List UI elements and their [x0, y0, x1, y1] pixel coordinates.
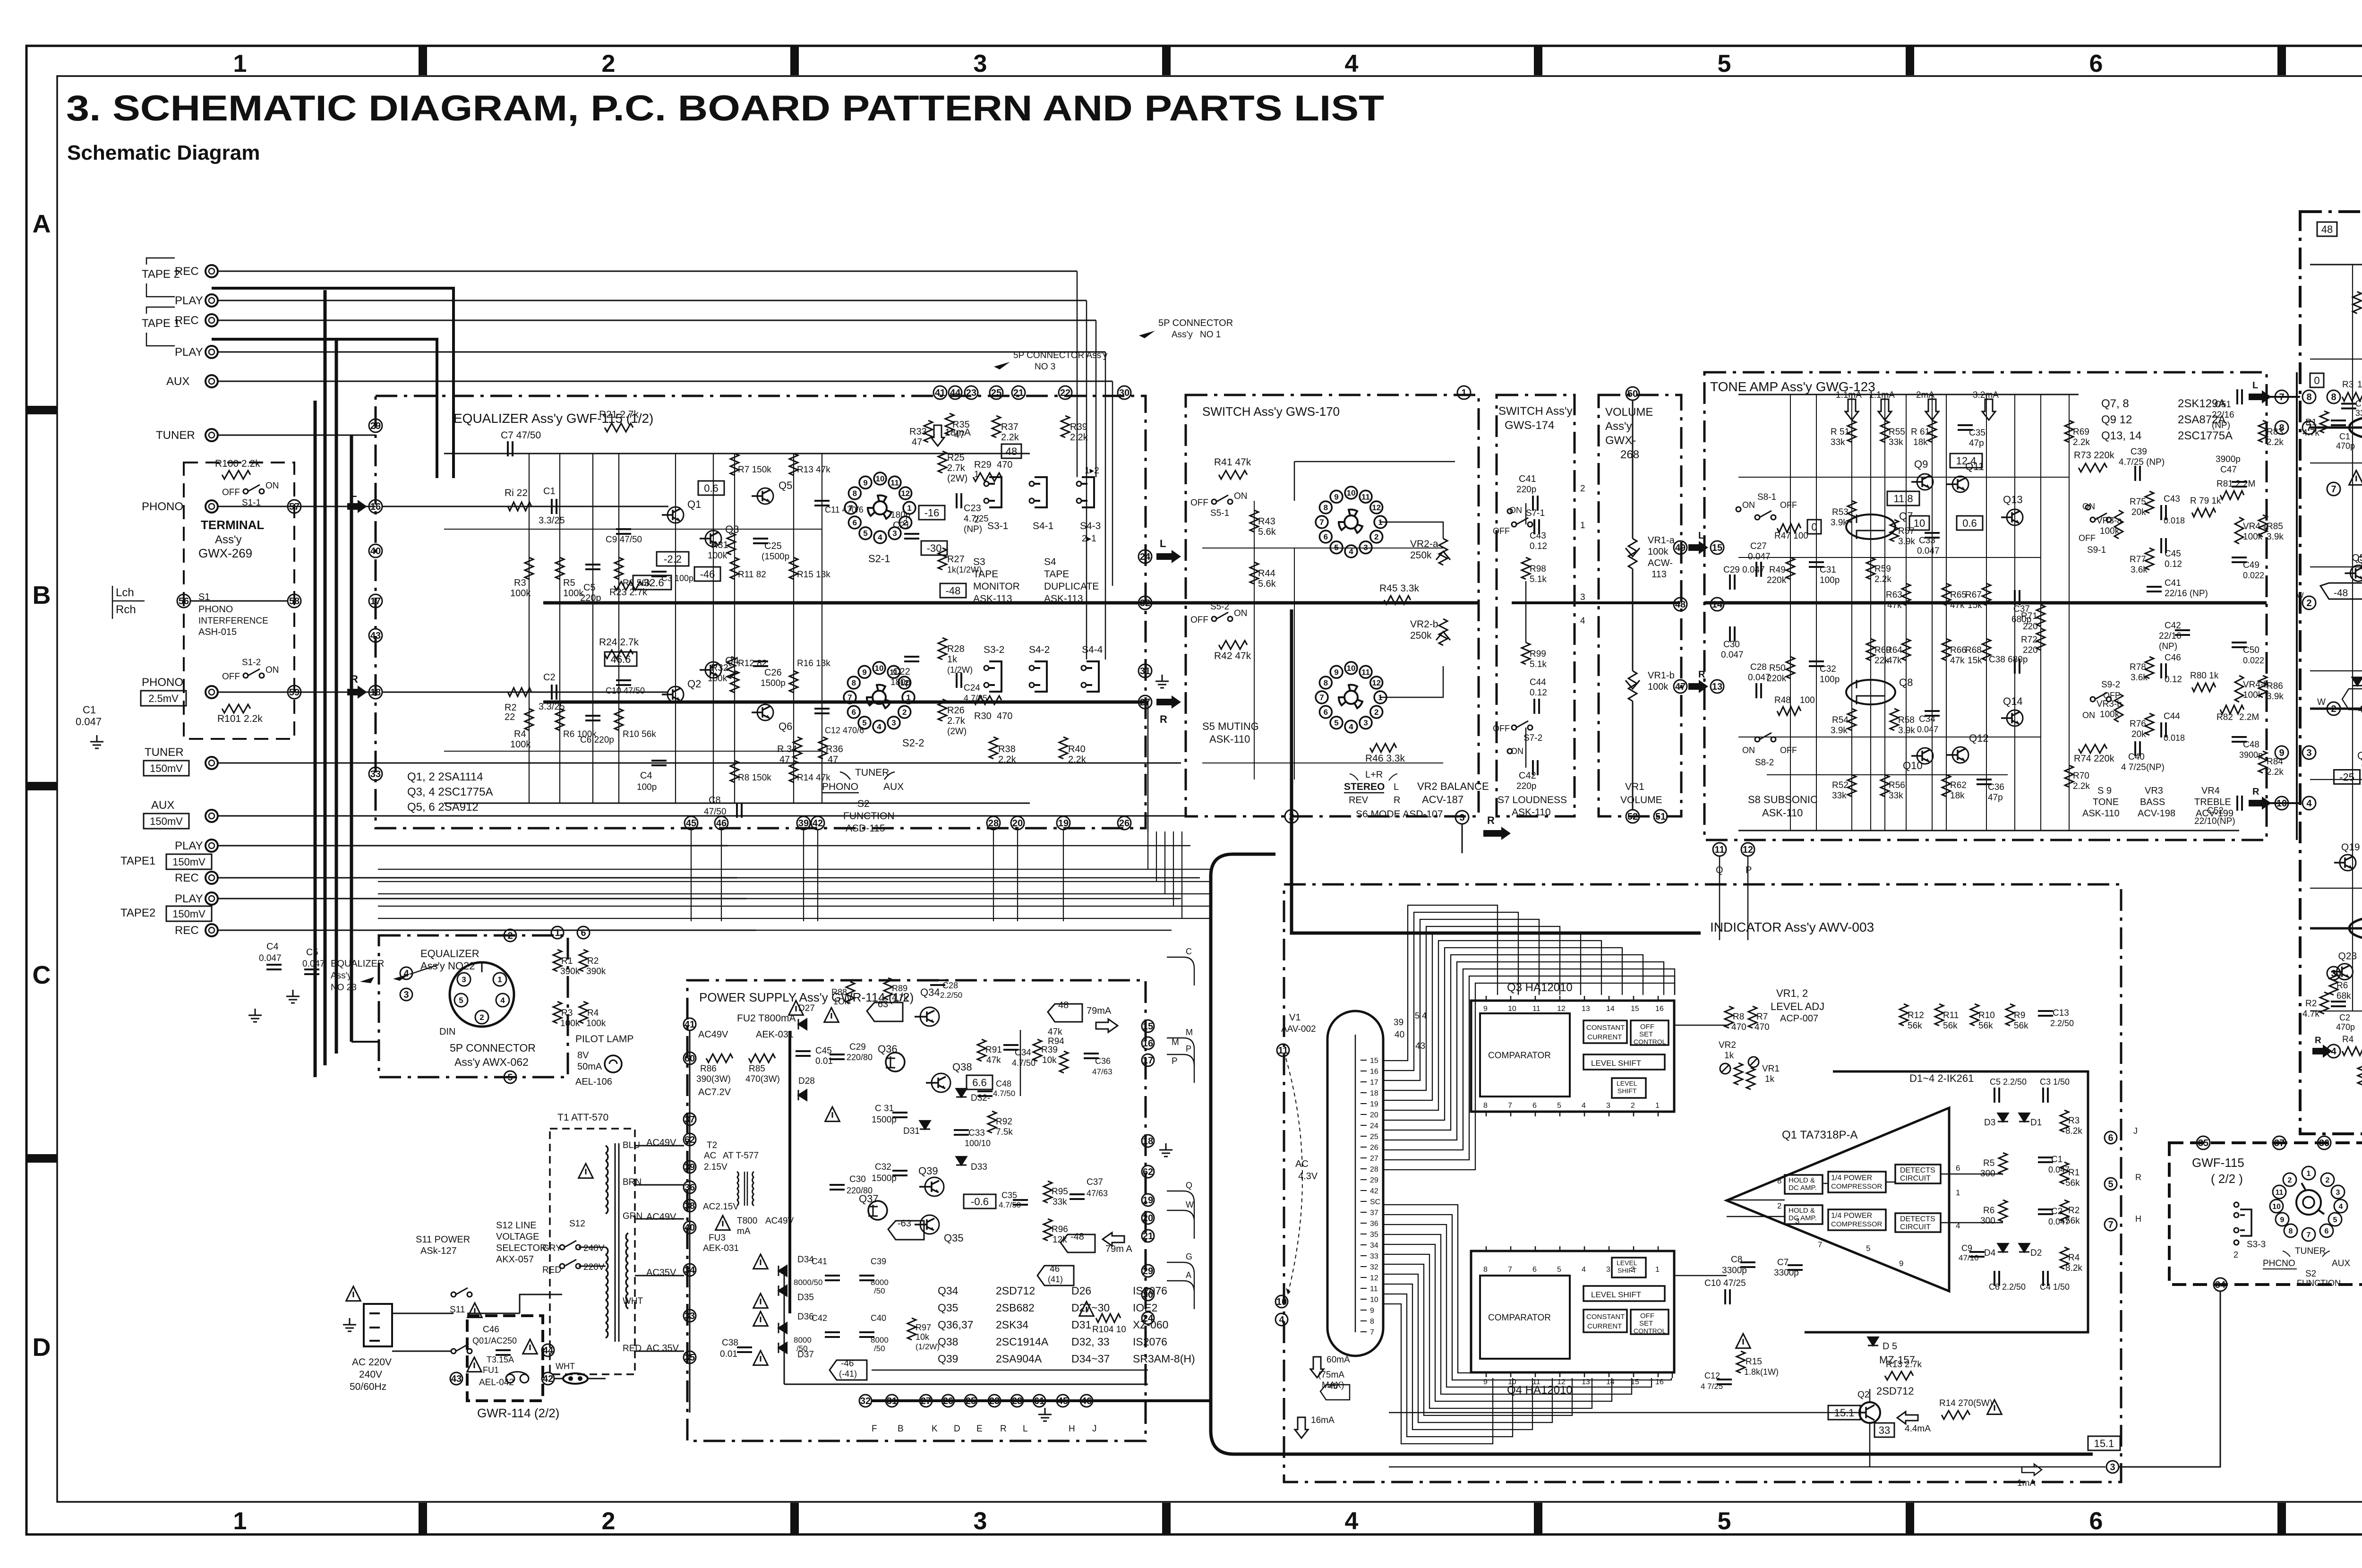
svg-text:Q2: Q2 [687, 678, 701, 690]
svg-text:47/63: 47/63 [1087, 1189, 1108, 1198]
svg-text:R86: R86 [2267, 681, 2283, 691]
capacitor C31 100p [1809, 562, 1824, 567]
svg-text:R43: R43 [1258, 516, 1275, 527]
svg-text:R5: R5 [1983, 1158, 1994, 1168]
svg-text:R89: R89 [892, 984, 907, 993]
svg-text:18: 18 [1370, 1089, 1378, 1097]
svg-text:0.047: 0.047 [1748, 552, 1771, 562]
switch assembly GWS-174 box [1497, 395, 1575, 816]
svg-text:ACV-187: ACV-187 [1422, 794, 1463, 805]
resistor R13 2.7k ind [1885, 1371, 1913, 1380]
svg-text:0.12: 0.12 [1530, 541, 1547, 551]
junction 52 bottom [1626, 810, 1639, 823]
svg-text:2: 2 [2331, 704, 2336, 714]
wire heavy C bus left of indicator [1211, 854, 2093, 1454]
svg-text:R7 150k: R7 150k [738, 465, 771, 475]
svg-text:R53: R53 [1832, 507, 1849, 517]
resistor R65 47k [1942, 583, 1951, 605]
svg-text:CONTROL: CONTROL [1634, 1038, 1666, 1045]
svg-text:/50: /50 [874, 1344, 885, 1353]
svg-text:9: 9 [862, 668, 866, 677]
tone top rail [1738, 394, 2079, 395]
svg-text:5 4: 5 4 [1415, 1011, 1427, 1020]
rotary switch S2 function gwf [2296, 1190, 2321, 1215]
svg-text:48: 48 [1058, 1000, 1069, 1011]
DIN connector circle [450, 962, 514, 1027]
svg-text:/50: /50 [874, 1286, 885, 1295]
IC Q3 HA12010 outer box [1471, 1001, 1674, 1112]
input jack PHONO y1465 [205, 686, 218, 698]
transistor Q6 [757, 704, 773, 720]
wire eq bottom rail [444, 803, 1030, 804]
resistor R53 3.9k [1848, 501, 1856, 523]
svg-text:C4: C4 [640, 771, 652, 781]
svg-text:S8-2: S8-2 [1755, 758, 1774, 768]
svg-text:R11: R11 [1943, 1011, 1959, 1020]
svg-text:R59: R59 [1874, 564, 1891, 574]
quarter power compressor box 1 [1828, 1172, 1886, 1192]
svg-text:10: 10 [1347, 488, 1356, 497]
svg-text:R63: R63 [1886, 590, 1902, 600]
svg-text:Ri 22: Ri 22 [505, 488, 528, 498]
capacitor C24 4.7/25(NP) [957, 673, 961, 688]
wire aux150 run [218, 815, 1190, 817]
junction 7 pa [2327, 482, 2340, 496]
slide switch S4-2 [1035, 661, 1047, 692]
svg-text:S2: S2 [2305, 1269, 2316, 1279]
transistor Q5 [757, 488, 773, 504]
svg-text:9: 9 [1483, 1378, 1488, 1386]
voltage box -16 [919, 506, 945, 520]
svg-text:Q01/AC250: Q01/AC250 [472, 1336, 517, 1345]
svg-text:268: 268 [1620, 448, 1639, 461]
svg-text:2: 2 [1580, 484, 1585, 494]
svg-text:8: 8 [1483, 1102, 1488, 1110]
grid tick bottom [1906, 1503, 1914, 1534]
svg-text:3900p: 3900p [2239, 750, 2263, 760]
svg-text:PHONO: PHONO [822, 781, 858, 792]
svg-text:OFF: OFF [1190, 498, 1208, 508]
svg-text:8000: 8000 [794, 1336, 812, 1345]
svg-text:13: 13 [1582, 1005, 1590, 1013]
svg-text:C44: C44 [1530, 677, 1546, 687]
svg-text:8: 8 [1324, 503, 1328, 512]
input jack AUX y1727 [205, 810, 218, 822]
svg-text:9: 9 [1334, 668, 1338, 677]
transistor Q5 power amp [2350, 565, 2362, 581]
svg-text:TAPE2: TAPE2 [120, 907, 155, 919]
svg-text:6: 6 [581, 928, 586, 938]
transformer secondary winding [626, 1233, 628, 1241]
svg-text:12: 12 [1557, 1005, 1566, 1013]
resistor R98 5.1k [1522, 557, 1530, 579]
bus tape loop vertical 2 [324, 290, 327, 1065]
stadium fluorescent tube V1 AAV-002 [1327, 1011, 1383, 1356]
switch S7-1 [1512, 522, 1516, 527]
FET Q7 [1846, 514, 1895, 539]
svg-text:R: R [1487, 814, 1495, 826]
svg-text:C44: C44 [2164, 711, 2180, 721]
svg-text:0.047: 0.047 [1917, 546, 1940, 556]
svg-text:R7: R7 [1756, 1012, 1768, 1022]
svg-text:7: 7 [2307, 1231, 2311, 1239]
svg-text:12: 12 [1557, 1378, 1566, 1386]
svg-text:10: 10 [1370, 1296, 1378, 1304]
svg-text:AC 220V: AC 220V [352, 1357, 392, 1368]
svg-text:Q1: Q1 [687, 498, 701, 510]
svg-text:-48: -48 [2355, 704, 2362, 715]
resistor Ri 22 [508, 502, 531, 511]
svg-text:D1~4 2-IK261: D1~4 2-IK261 [1909, 1072, 1974, 1084]
svg-text:1: 1 [2307, 1170, 2311, 1178]
svg-text:39: 39 [798, 818, 809, 829]
junction 58 [288, 594, 301, 608]
svg-text:1: 1 [1461, 388, 1466, 398]
svg-text:1: 1 [1956, 1188, 1960, 1197]
resistor R71 220 [2037, 605, 2045, 626]
junction 56 [177, 594, 190, 608]
voltage box 0.6 tone [1957, 516, 1983, 530]
svg-text:Q3: Q3 [2357, 554, 2362, 566]
svg-text:0.022: 0.022 [2243, 571, 2264, 580]
svg-text:S5 MUTING: S5 MUTING [1202, 720, 1259, 732]
svg-text:7: 7 [1508, 1102, 1512, 1110]
svg-text:Q5: Q5 [779, 480, 792, 491]
input jack REC y1969 [205, 924, 218, 936]
svg-text:2.2k: 2.2k [1874, 574, 1891, 584]
svg-text:R68: R68 [1965, 645, 1982, 655]
svg-text:36: 36 [1370, 1220, 1378, 1228]
IC Q3 level shift box [1583, 1054, 1665, 1070]
resistor R39 2.2k [1061, 416, 1070, 437]
svg-text:8: 8 [1483, 1266, 1488, 1274]
svg-text:C2: C2 [2051, 1207, 2062, 1217]
svg-text:47k: 47k [1048, 1027, 1062, 1037]
svg-text:CIRCUIT: CIRCUIT [1900, 1174, 1931, 1182]
wire tape play runs extended [727, 845, 1190, 847]
wire input tuner [218, 435, 376, 436]
svg-text:240V: 240V [359, 1369, 382, 1380]
svg-text:41: 41 [935, 388, 945, 398]
svg-text:R29: R29 [974, 460, 992, 470]
resistor R76 20k [2145, 713, 2154, 735]
svg-text:R37: R37 [1001, 422, 1018, 432]
svg-text:R50: R50 [1769, 663, 1786, 673]
svg-text:2: 2 [507, 931, 513, 941]
svg-text:R49: R49 [1769, 565, 1786, 575]
svg-text:K: K [932, 1424, 938, 1434]
svg-text:DUPLICATE: DUPLICATE [1044, 581, 1099, 592]
svg-text:8.2k: 8.2k [2065, 1263, 2082, 1273]
svg-text:3: 3 [1580, 592, 1585, 602]
svg-text:16: 16 [1655, 1005, 1664, 1013]
transistor Q11 [1952, 476, 1968, 492]
svg-text:7: 7 [848, 504, 853, 513]
small transformer T2 winding [737, 1172, 738, 1177]
svg-text:1: 1 [497, 975, 502, 984]
svg-text:-25: -25 [2339, 771, 2354, 783]
svg-text:SET: SET [1639, 1320, 1653, 1328]
junction column ps left [684, 1113, 696, 1125]
svg-text:390k: 390k [560, 967, 580, 977]
vertical drops from bottom junction row [691, 830, 692, 921]
svg-text:4 7/25(NP): 4 7/25(NP) [2121, 763, 2165, 772]
input jack AUX y807 [205, 375, 218, 387]
svg-text:11: 11 [1370, 1285, 1378, 1293]
svg-text:(2W): (2W) [947, 727, 967, 737]
svg-text:Q3 HA12010: Q3 HA12010 [1507, 981, 1573, 994]
svg-text:R100 2.2k: R100 2.2k [215, 458, 260, 469]
wire tape2 play run [218, 898, 746, 900]
svg-text:CIRCUIT: CIRCUIT [1900, 1223, 1931, 1231]
svg-text:C9 47/50: C9 47/50 [606, 535, 642, 545]
bus tape loop vertical 1 [314, 401, 317, 1077]
capacitor C11 470/6 [814, 501, 830, 506]
svg-text:100k: 100k [708, 551, 727, 561]
svg-text:20: 20 [1143, 1213, 1153, 1224]
pot VR3-b 100k [2114, 694, 2123, 722]
svg-text:37: 37 [2274, 1138, 2285, 1148]
slide switch S3-2 [989, 661, 1001, 692]
svg-text:R56: R56 [1889, 780, 1905, 790]
ps left vertical bus [689, 1030, 691, 1413]
svg-text:4.7k: 4.7k [2302, 428, 2319, 438]
svg-text:1mA: 1mA [2017, 1478, 2036, 1488]
svg-text:Q14: Q14 [2003, 695, 2023, 707]
svg-text:C42: C42 [812, 1313, 827, 1323]
wire tape1 play run [218, 845, 727, 847]
svg-text:32: 32 [1140, 598, 1150, 608]
svg-text:C46: C46 [483, 1325, 499, 1335]
svg-text:R15: R15 [1746, 1357, 1762, 1367]
capacitor C33 100/10 [954, 1130, 969, 1135]
svg-text:DETECTS: DETECTS [1900, 1215, 1935, 1223]
svg-text:ASK-113: ASK-113 [973, 593, 1012, 604]
svg-text:J: J [1092, 1424, 1097, 1434]
IC Q3 constant current box [1583, 1020, 1627, 1043]
svg-text:240V: 240V [583, 1243, 605, 1253]
svg-text:A: A [1186, 1270, 1191, 1280]
resistor R73 220k [2079, 463, 2107, 472]
svg-text:5.1k: 5.1k [1530, 660, 1547, 669]
svg-text:12: 12 [901, 489, 910, 498]
svg-text:Q37: Q37 [859, 1193, 879, 1205]
svg-text:47p: 47p [1969, 438, 1984, 448]
svg-text:18k: 18k [1913, 437, 1928, 447]
svg-text:CURRENT: CURRENT [1587, 1322, 1622, 1330]
junction 4 indicator [1275, 1313, 1288, 1326]
svg-text:15: 15 [1143, 1021, 1153, 1032]
svg-text:4: 4 [2306, 798, 2312, 809]
svg-text:0.047: 0.047 [1721, 650, 1744, 660]
svg-text:24: 24 [1140, 552, 1151, 562]
svg-text:R80 1k: R80 1k [2190, 671, 2219, 681]
svg-text:R62: R62 [1950, 780, 1967, 790]
resistor R2 22 [508, 688, 531, 696]
svg-text:33k: 33k [1889, 791, 1903, 801]
svg-text:27: 27 [1370, 1155, 1378, 1163]
capacitor C1 0.047 ind [2038, 1157, 2053, 1162]
junction 1 top [1457, 386, 1471, 399]
svg-text:R99: R99 [1530, 649, 1546, 659]
junction 35 37 36 38 gwf [2197, 1136, 2210, 1149]
svg-text:2.2k: 2.2k [2267, 767, 2284, 777]
junction 29 30 ps [1142, 1265, 1154, 1277]
svg-text:R32: R32 [711, 663, 728, 673]
svg-text:R6: R6 [2336, 981, 2348, 991]
voltage check box power amp [2334, 770, 2360, 784]
svg-text:ON: ON [2082, 711, 2095, 720]
transistor Q9 [1917, 474, 1933, 490]
arrow 79mA ps lower [1103, 1233, 1124, 1246]
svg-text:VR1, 2: VR1, 2 [1776, 987, 1808, 999]
svg-text:68k: 68k [2336, 991, 2351, 1001]
svg-text:C1: C1 [2051, 1155, 2062, 1165]
bus tape loop vertical 4 [350, 435, 353, 1042]
svg-text:5.6k: 5.6k [1258, 527, 1276, 537]
svg-text:22: 22 [1060, 388, 1070, 398]
svg-text:34: 34 [1370, 1242, 1378, 1250]
junction 10 indicator [1275, 1295, 1288, 1308]
svg-text:5: 5 [863, 529, 867, 538]
svg-text:VOLUME: VOLUME [1620, 795, 1662, 805]
svg-text:VR2 BALANCE: VR2 BALANCE [1417, 780, 1489, 792]
svg-text:D28: D28 [798, 1076, 815, 1086]
svg-text:50: 50 [1627, 389, 1638, 399]
svg-text:7: 7 [1508, 1266, 1512, 1274]
resistor R43 5.6k [1250, 510, 1258, 532]
svg-text:100k: 100k [1648, 547, 1669, 557]
capacitor C49 0.022 [2232, 557, 2247, 562]
resistor R52 33k [1848, 775, 1856, 797]
voltage callout 63 [867, 1002, 903, 1021]
svg-text:R96: R96 [1052, 1225, 1068, 1234]
svg-text:P: P [1746, 865, 1752, 875]
pot VR1-a 100k [1628, 539, 1637, 569]
svg-text:2SA904A: 2SA904A [996, 1353, 1042, 1365]
svg-text:9: 9 [1483, 1005, 1488, 1013]
svg-text:11: 11 [1714, 845, 1724, 855]
svg-text:VOLTAGE: VOLTAGE [496, 1232, 539, 1242]
power supply assembly GWR-114 box [687, 980, 1146, 1441]
junction 9 3 right [2275, 746, 2288, 759]
resistor R40 2.2k [1059, 737, 1068, 759]
resistor R61 18k [1928, 420, 1936, 442]
svg-text:(NP): (NP) [964, 524, 982, 534]
voltage box -30 [921, 541, 947, 555]
resistor R18 2.2k pa bottom [2358, 1063, 2362, 1085]
svg-text:Q1, 2 2SA1114: Q1, 2 2SA1114 [407, 771, 483, 783]
svg-text:R5: R5 [563, 578, 575, 588]
junction 62b ps [1142, 1165, 1154, 1178]
ps heavy bottom bus [872, 1399, 1211, 1402]
svg-text:L: L [1160, 538, 1166, 549]
input jack REC y1858 [205, 872, 218, 884]
svg-text:470p: 470p [2336, 441, 2355, 451]
AC inlet block [364, 1304, 392, 1346]
svg-text:C31: C31 [1820, 565, 1836, 575]
svg-text:19: 19 [1370, 1100, 1378, 1108]
svg-text:33k: 33k [1053, 1197, 1067, 1207]
dashed filament curve [1286, 1058, 1302, 1294]
svg-text:R33: R33 [909, 427, 927, 437]
svg-text:TAPE1: TAPE1 [120, 855, 155, 867]
svg-text:5: 5 [1866, 1244, 1870, 1253]
svg-text:C49: C49 [2243, 560, 2259, 570]
svg-text:Ass'y: Ass'y [215, 533, 242, 546]
svg-text:L: L [351, 488, 357, 499]
svg-text:7: 7 [1370, 1328, 1374, 1337]
svg-text:R85: R85 [749, 1064, 765, 1074]
svg-text:2SC1775A: 2SC1775A [2178, 429, 2233, 442]
svg-text:220: 220 [2023, 645, 2038, 655]
svg-text:5: 5 [862, 719, 866, 728]
svg-text:8: 8 [1370, 1318, 1374, 1326]
svg-text:42: 42 [813, 818, 823, 829]
svg-text:6: 6 [2089, 50, 2103, 77]
input jack PLAY y636 [205, 294, 218, 307]
svg-text:7: 7 [847, 693, 852, 702]
svg-text:4.3V: 4.3V [1298, 1171, 1318, 1182]
diode D31 ps [920, 1121, 930, 1129]
svg-text:4: 4 [877, 722, 881, 731]
svg-text:10: 10 [876, 474, 885, 483]
svg-text:R3: R3 [561, 1008, 573, 1018]
svg-text:R: R [1160, 713, 1167, 725]
capacitor C22 180p [904, 657, 919, 661]
resistor R27 1k(1/2W) [938, 548, 947, 570]
svg-text:26: 26 [1119, 818, 1130, 829]
voltage box -0.6 ps [964, 1194, 996, 1208]
svg-text:12: 12 [1372, 678, 1381, 687]
capacitor C48 3900p [2232, 737, 2247, 742]
pot VR4-a 100k [2235, 517, 2243, 544]
input jack PLAY y745 [205, 346, 218, 358]
svg-text:3.6k: 3.6k [2131, 565, 2148, 575]
svg-text:S3-1: S3-1 [987, 521, 1008, 531]
svg-text:C32: C32 [1820, 664, 1836, 674]
svg-text:R72: R72 [2021, 635, 2037, 645]
grid tick left [27, 406, 57, 414]
resistor R86 3.9k [2259, 676, 2267, 697]
svg-text:L: L [1698, 531, 1704, 541]
svg-text:6: 6 [2325, 1227, 2329, 1235]
svg-text:R45 3.3k: R45 3.3k [1379, 583, 1420, 594]
svg-text:47/10: 47/10 [1959, 1253, 1979, 1262]
svg-text:56k: 56k [1943, 1021, 1958, 1031]
svg-text:REC: REC [175, 872, 199, 884]
R signal arrow bottom [1483, 827, 1511, 840]
svg-text:VR1-a: VR1-a [1648, 535, 1675, 546]
svg-text:P: P [1172, 1056, 1178, 1066]
power amp vertical column wires [2352, 265, 2353, 1011]
tone amp assembly GWG-123 box [1704, 372, 2267, 840]
slide switch S4-1 [1035, 477, 1047, 507]
svg-text:390(3W): 390(3W) [696, 1074, 731, 1084]
svg-text:C48: C48 [996, 1079, 1011, 1088]
capacitor C35 47p [1958, 425, 1973, 430]
svg-text:C38 680p: C38 680p [1989, 655, 2028, 665]
svg-text:220k: 220k [1767, 674, 1787, 684]
svg-text:5: 5 [2108, 1179, 2113, 1190]
svg-text:1k: 1k [1724, 1051, 1734, 1061]
svg-text:R95: R95 [1052, 1187, 1068, 1197]
svg-text:R98: R98 [1530, 564, 1546, 574]
svg-text:9: 9 [2279, 748, 2284, 758]
resistor R82 2.2M [2220, 705, 2244, 714]
resistor R69 2.2k [2065, 420, 2073, 442]
svg-text:21: 21 [1143, 1231, 1153, 1242]
